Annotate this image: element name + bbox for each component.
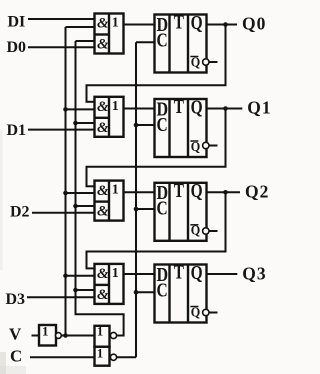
inversion bubble on Qbar of U3 — [203, 228, 209, 234]
inversion bubble on Qbar of U1 — [203, 59, 209, 65]
feedback wire Q2 down to gate G4 — [86, 252, 88, 269]
wire clock to C of U4 — [136, 291, 156, 293]
svg-text:T: T — [174, 12, 185, 34]
flip-flop U4 (D T Q) — [155, 262, 207, 323]
svg-text:Q1: Q1 — [247, 97, 270, 117]
and-or gate block G2 — [95, 97, 124, 137]
svg-text:&: & — [97, 266, 109, 282]
wire bus B to gate G4 input3 — [76, 289, 96, 291]
feedback wire Q2 into gate G4 — [86, 267, 96, 269]
svg-text:Q2: Q2 — [245, 182, 269, 202]
feedback wire Q0 into gate G2 — [86, 101, 96, 103]
svg-text:1: 1 — [112, 16, 119, 31]
svg-text:Q: Q — [191, 262, 203, 284]
svg-text:Q: Q — [191, 224, 201, 239]
svg-text:C: C — [157, 29, 168, 51]
wire bus B to gate G3 input3 — [76, 205, 96, 207]
svg-text:&: & — [97, 183, 109, 199]
svg-text:D3: D3 — [6, 291, 26, 308]
scan smudge bottom-left — [0, 352, 6, 374]
svg-text:1: 1 — [112, 183, 119, 198]
inversion bubble N2 — [110, 332, 116, 338]
svg-text:1: 1 — [112, 99, 119, 114]
feedback wire Q0 left — [86, 84, 227, 86]
wire N2 out right — [117, 335, 124, 337]
wire N3 out right — [117, 356, 137, 358]
svg-text:C: C — [157, 279, 168, 301]
wire D0 to gate — [28, 46, 96, 48]
wire C to buffer N3 — [30, 356, 96, 358]
wire N2 out left to bus B — [75, 313, 125, 315]
svg-text:T: T — [174, 262, 185, 284]
svg-text:D2: D2 — [10, 204, 30, 221]
junction clock row 4 — [134, 290, 139, 295]
and-or gate block G1 — [95, 14, 124, 54]
flip-flop U3 (D T Q) — [155, 180, 207, 241]
junction node on Q1 line — [223, 106, 228, 111]
svg-text:&: & — [97, 16, 109, 32]
wire N1 out to buffer N2 — [61, 335, 95, 337]
wire D1 to gate — [28, 129, 96, 131]
wire gate G3 output to D of U3 — [123, 191, 156, 193]
svg-text:&: & — [97, 99, 109, 115]
junction bus A row 3 — [63, 191, 68, 196]
wire N2 out up — [123, 314, 125, 336]
stub wire from Qbar of U2 — [209, 145, 218, 147]
stub wire from Qbar of U1 — [209, 61, 218, 63]
wire bus A to gate G4 input2 — [66, 275, 96, 277]
wire D3 to gate — [27, 296, 96, 298]
svg-text:T: T — [174, 180, 185, 202]
buffer N2 (upper) — [95, 324, 110, 347]
flip-flop U2 (D T Q) — [155, 96, 207, 157]
junction clock row 3 — [134, 207, 139, 212]
wire bus A to gate G2 input2 — [66, 108, 96, 110]
wire Q of U1 to label Q0 — [206, 24, 238, 26]
svg-text:D1: D1 — [7, 122, 27, 139]
wire bus A to gate G1 input2 — [66, 26, 96, 28]
wire V to inverter — [32, 335, 41, 337]
inverter N1 (V) — [39, 323, 56, 345]
inversion bubble on Qbar of U4 — [203, 309, 209, 315]
wire bus A to gate G3 input2 — [66, 192, 96, 194]
feedback wire Q1 down to gate G3 — [86, 167, 88, 187]
inversion bubble N1 — [56, 333, 62, 339]
svg-text:&: & — [97, 204, 109, 220]
junction bus A row 2 — [63, 107, 68, 112]
inversion bubble N3 — [110, 354, 116, 360]
junction clock row 2 — [134, 123, 139, 128]
stub wire from Qbar of U4 — [209, 312, 218, 314]
svg-text:&: & — [97, 287, 109, 303]
svg-text:&: & — [97, 120, 109, 136]
wire Q of U4 to label Q3 — [206, 273, 238, 275]
svg-text:Q: Q — [191, 12, 203, 34]
junction node on Q0 line — [223, 22, 228, 27]
feedback wire Q0 down — [225, 25, 227, 86]
svg-text:Q0: Q0 — [242, 14, 266, 34]
wire Q of U2 to label Q1 — [206, 108, 243, 110]
inversion bubble on Qbar of U2 — [203, 142, 209, 148]
wire clock to C of U1 — [136, 41, 156, 43]
junction bus A bottom — [63, 333, 68, 338]
bus B vertical (V select line) — [75, 41, 77, 314]
svg-text:C: C — [157, 198, 168, 220]
bus A vertical (V inverted select line) — [65, 27, 67, 336]
wire Q of U3 to label Q2 — [206, 191, 241, 193]
and-or gate block G3 — [95, 181, 124, 221]
wire bus B to gate G2 input3 — [76, 122, 96, 124]
wire gate G4 output to D of U4 — [123, 273, 156, 275]
clock vertical wire — [135, 42, 137, 357]
stub wire from Qbar of U3 — [209, 230, 218, 232]
svg-text:&: & — [97, 37, 109, 53]
and-or gate block G4 — [95, 264, 124, 304]
svg-text:Q: Q — [191, 305, 201, 320]
junction node on Q2 line — [223, 190, 228, 195]
svg-text:C: C — [10, 347, 22, 366]
svg-text:T: T — [174, 96, 185, 118]
svg-text:1: 1 — [97, 345, 104, 360]
buffer N3 (lower) — [95, 345, 110, 365]
svg-text:Q3: Q3 — [242, 264, 266, 284]
wire bus B to gate G1 input3 — [76, 40, 96, 42]
svg-text:Q: Q — [191, 96, 203, 118]
junction bus A row 4 — [63, 274, 68, 279]
svg-text:1: 1 — [97, 324, 104, 339]
feedback wire Q1 into gate G3 — [86, 185, 96, 187]
flip-flop U1 (D T Q) — [155, 12, 207, 73]
wire D2 to gate — [32, 212, 96, 214]
feedback wire Q1 left — [86, 166, 227, 168]
svg-text:1: 1 — [112, 266, 119, 281]
svg-text:Q: Q — [191, 180, 203, 202]
wire gate G1 output to D of U1 — [123, 24, 156, 26]
svg-text:DI: DI — [8, 14, 26, 31]
wire gate G2 output to D of U2 — [123, 108, 156, 110]
feedback wire Q2 left — [86, 251, 227, 253]
wire DI to gate — [28, 18, 96, 20]
junction bus B row 3 — [73, 204, 78, 209]
svg-text:D0: D0 — [7, 39, 27, 56]
feedback wire Q1 down — [225, 109, 227, 167]
feedback wire Q2 down — [225, 192, 227, 251]
junction bus B row 4 — [73, 288, 78, 293]
svg-text:1: 1 — [42, 323, 49, 338]
svg-text:C: C — [157, 114, 168, 136]
svg-text:Q: Q — [191, 140, 201, 155]
svg-text:V: V — [9, 325, 22, 344]
feedback wire Q0 down to gate G2 — [86, 85, 88, 102]
svg-text:Q: Q — [191, 55, 201, 70]
junction bus B row 2 — [73, 121, 78, 126]
wire clock to C of U3 — [136, 208, 156, 210]
wire clock to C of U2 — [136, 124, 156, 126]
